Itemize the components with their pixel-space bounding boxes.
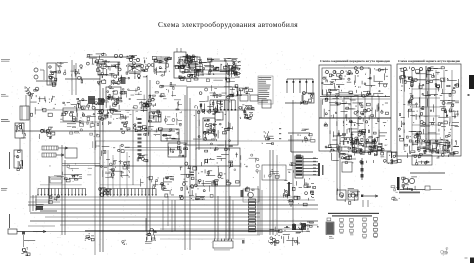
pin box label: [50, 177, 62, 183]
module1 cluster mid: [323, 98, 389, 126]
pin row labels: [40, 184, 141, 187]
dark blob x240: [241, 186, 255, 197]
fill cluster f: [50, 163, 92, 177]
bl dense bits: [49, 195, 60, 204]
module3 top cluster: [339, 139, 384, 156]
bus band line 5: [45, 216, 260, 218]
bus band line 2: [28, 204, 318, 206]
drop verticals x108-130: [108, 145, 127, 197]
switch block SA1: [207, 58, 241, 76]
resistor array R1: [209, 95, 236, 111]
left switch SW2: [15, 123, 26, 138]
module3 dark box: [387, 151, 401, 164]
cluster x142 y176: [140, 176, 164, 189]
bus band line 3: [35, 208, 318, 210]
comp circle x248: [243, 189, 259, 202]
striped bar 2: [42, 153, 64, 157]
module1 circle row: [326, 71, 359, 74]
relay K1 block: [87, 53, 107, 67]
fill cluster b: [122, 87, 146, 109]
small boxes x240 y95: [240, 95, 258, 101]
wire color legend: [258, 76, 273, 104]
module1 cluster bottom: [326, 128, 387, 163]
legend dot: [317, 226, 319, 228]
bus line A: [35, 109, 255, 111]
legend col 2: [340, 219, 344, 234]
legend col 4: [363, 218, 367, 238]
box x65 y148: [65, 148, 77, 158]
cluster left of legend: [239, 105, 254, 119]
cluster x280 y180: [283, 180, 298, 201]
tall box x203: [203, 118, 217, 140]
module3 box mid: [342, 162, 352, 172]
left edge marks module3: [318, 163, 324, 176]
starter cluster: [77, 96, 123, 119]
main vertical bus 6: [292, 100, 294, 228]
module3 drops: [363, 200, 368, 207]
main vertical bus 2: [147, 75, 150, 240]
cluster 185-215: [187, 58, 216, 77]
comp cluster x138: [140, 95, 156, 112]
vline x30: [29, 95, 31, 212]
lamp cluster top center: [178, 55, 204, 81]
cluster pins mid: [179, 179, 205, 201]
module3 bottom boxes: [337, 188, 360, 204]
wire y86: [160, 85, 187, 87]
cluster x80 y112: [81, 116, 118, 126]
box x149: [148, 110, 161, 122]
vert pair x196: [196, 110, 199, 150]
bus line E: [60, 121, 100, 123]
module2 cluster mid: [399, 97, 459, 127]
mr small box top: [430, 140, 450, 153]
vline x95b: [93, 130, 100, 150]
dark cluster 290: [292, 222, 313, 233]
module3 verticals: [337, 135, 340, 195]
bottom cluster 270: [268, 226, 300, 246]
wire y79: [65, 78, 100, 80]
central big box: [196, 148, 240, 186]
top tall box pair: [174, 48, 196, 79]
mid-left cluster y150: [100, 144, 130, 177]
cluster x136 y150: [137, 155, 148, 162]
faint lines below: [150, 235, 260, 239]
coil cluster: [148, 56, 172, 76]
right-mid pin ticks: [279, 128, 281, 139]
box x128 y64: [128, 64, 141, 72]
module1 bottom row: [325, 142, 388, 152]
big box upper: [187, 87, 238, 145]
vert pair bottom left: [62, 145, 65, 235]
fill cluster d: [205, 79, 240, 99]
bus band line 6: [30, 220, 318, 222]
title text: [158, 20, 298, 29]
left wire down: [19, 138, 21, 150]
vert pair x72: [72, 60, 83, 95]
fill cluster j: [111, 110, 138, 120]
pin row 1: [37, 189, 86, 196]
left edge text y190: [1, 188, 7, 191]
hlines y147 center: [125, 148, 180, 151]
main vertical bus 4: [226, 60, 229, 240]
cluster x62: [60, 98, 81, 123]
small row under SA1: [229, 85, 253, 96]
module2 tail box: [412, 155, 432, 165]
bus band stubs left: [28, 202, 60, 226]
circles top: [114, 54, 122, 57]
regulator box: [47, 63, 57, 86]
bottom comp 95: [122, 240, 245, 245]
arrow top: [88, 56, 135, 58]
bus line D: [95, 165, 240, 167]
module3 tall box: [352, 132, 365, 152]
svg-text:Схема соединений переднего жгу: Схема соединений переднего жгута проводо…: [320, 59, 390, 63]
module3 right marks: [391, 186, 400, 201]
comp x205 y125: [206, 124, 217, 133]
module1 cluster top: [322, 67, 388, 98]
bus band line 1: [30, 196, 300, 198]
left top text: [1, 59, 10, 97]
fill cluster a: [57, 62, 74, 74]
module1 hbus: [320, 97, 390, 100]
marks left of stack: [287, 163, 295, 173]
bus band line 4: [30, 212, 260, 214]
zigzag comp x243: [244, 106, 253, 119]
small mark x185 y53: [185, 54, 194, 61]
distributor cluster: [126, 55, 148, 79]
bottom left symbol: [21, 248, 30, 256]
left small cluster: [25, 86, 37, 96]
bus band line 8: [160, 228, 300, 230]
bl text y240: [24, 239, 35, 242]
dark bottom line: [33, 230, 310, 233]
drop lines bottom: [146, 184, 233, 239]
cluster x60 y170: [62, 172, 82, 182]
module2 bottom cluster: [410, 140, 452, 154]
module1 verticals: [330, 96, 379, 145]
dark connector stack: [295, 156, 303, 178]
module2 verticals: [404, 70, 452, 150]
module1 dark line: [319, 117, 391, 119]
connector stack bottom: [249, 199, 256, 232]
bottom left resistor arrow: [8, 229, 46, 234]
module2 border: [397, 64, 461, 156]
left cluster mid: [30, 95, 55, 116]
dark box x120 y76: [121, 77, 126, 84]
bus line C: [95, 140, 310, 142]
small box x215 y112: [215, 112, 223, 120]
fill cluster g: [234, 154, 259, 178]
stub wires right of stack: [303, 158, 318, 176]
gauge box: [302, 92, 314, 105]
bus band drops: [163, 186, 262, 235]
bottom connector box: [213, 239, 233, 251]
bottom cluster 185: [145, 228, 156, 243]
comp x120 y121: [121, 122, 138, 134]
fill cluster h: [67, 121, 94, 135]
horn circles: [34, 68, 44, 80]
module3 comps right: [367, 137, 381, 155]
left box module: [14, 150, 23, 171]
legend col 1: [326, 218, 334, 239]
module1 caption: [320, 59, 390, 63]
svg-text:Схема электрооборудования авто: Схема электрооборудования автомобиля: [158, 20, 298, 29]
three hlines right: [196, 63, 240, 82]
cluster x262 y131: [262, 131, 274, 144]
right-mid wires: [285, 95, 321, 157]
module2 caption: [398, 59, 460, 63]
mr circles: [402, 177, 417, 191]
legend col 5: [374, 218, 378, 238]
box x168 y143: [168, 143, 188, 157]
left text 1: [1, 119, 10, 122]
hlines y163: [62, 164, 100, 166]
mr line y189: [400, 186, 442, 190]
comp row x140 y125: [140, 126, 162, 136]
bottom left rotated text: [9, 214, 10, 228]
fill cluster c: [153, 81, 176, 99]
module1 inner box: [322, 68, 370, 95]
comp row x107: [109, 98, 122, 105]
module2 cluster bottom: [398, 128, 459, 158]
earth symbol: [288, 202, 294, 206]
hline y200: [35, 199, 315, 201]
vline x133: [132, 110, 134, 185]
cluster x179 y160: [180, 162, 197, 179]
dark vline x49: [48, 176, 50, 204]
bottom comp 80: [85, 233, 94, 241]
module1 border: [319, 65, 391, 151]
marks x205: [205, 180, 217, 197]
main vertical bus 1: [95, 70, 103, 255]
module2 center bus: [426, 66, 429, 152]
right edge tick: [468, 94, 470, 96]
module3 arrow: [361, 195, 378, 198]
module2 circle row: [404, 68, 431, 71]
mr dark bar: [397, 177, 400, 190]
svg-text:Схема соединений заднего жгута: Схема соединений заднего жгута проводов: [398, 59, 460, 63]
pin row 2: [99, 188, 157, 197]
left edge num y205: [36, 204, 44, 207]
module2 cluster top: [400, 67, 459, 97]
mr bar y192: [399, 192, 420, 194]
main vertical bus 3: [185, 95, 190, 250]
striped bar 1: [42, 146, 68, 150]
scan speckle: [10, 49, 462, 256]
left tiny comp: [39, 127, 55, 139]
mr hline y173: [410, 172, 445, 174]
left rotated label: [9, 152, 10, 169]
bus band line 7: [60, 224, 318, 226]
bus line B: [15, 130, 175, 132]
comp row x197 y100: [197, 101, 223, 115]
cluster box-bottom x162: [162, 177, 174, 198]
wire battery: [25, 95, 27, 106]
legend col 3: [350, 219, 354, 236]
big box upper internals: [193, 92, 234, 140]
fuse box F1: [106, 86, 125, 100]
wire g1: [36, 80, 57, 82]
vertical label column: [138, 118, 142, 159]
box x262 y165: [262, 165, 286, 180]
comp x210 y140: [210, 139, 232, 151]
fill cluster e: [105, 160, 129, 178]
bl arrow pair: [33, 195, 57, 211]
gauge wires: [286, 79, 314, 93]
right edge bottom blob: [441, 247, 474, 263]
main vertical bus 5: [260, 150, 277, 235]
relay K2 block: [95, 60, 122, 86]
small box x262 y100: [262, 100, 271, 108]
cluster x296 y178: [297, 178, 316, 205]
box x160 y128: [161, 129, 180, 145]
module2 rungs: [412, 80, 440, 143]
fill cluster i: [164, 100, 182, 126]
right edge black blob: [469, 75, 474, 89]
legend title: [328, 213, 379, 217]
bl vline x23: [22, 232, 25, 248]
lamp circle: [26, 87, 39, 92]
battery GB1: [20, 106, 29, 120]
module3 ladder: [361, 158, 364, 180]
